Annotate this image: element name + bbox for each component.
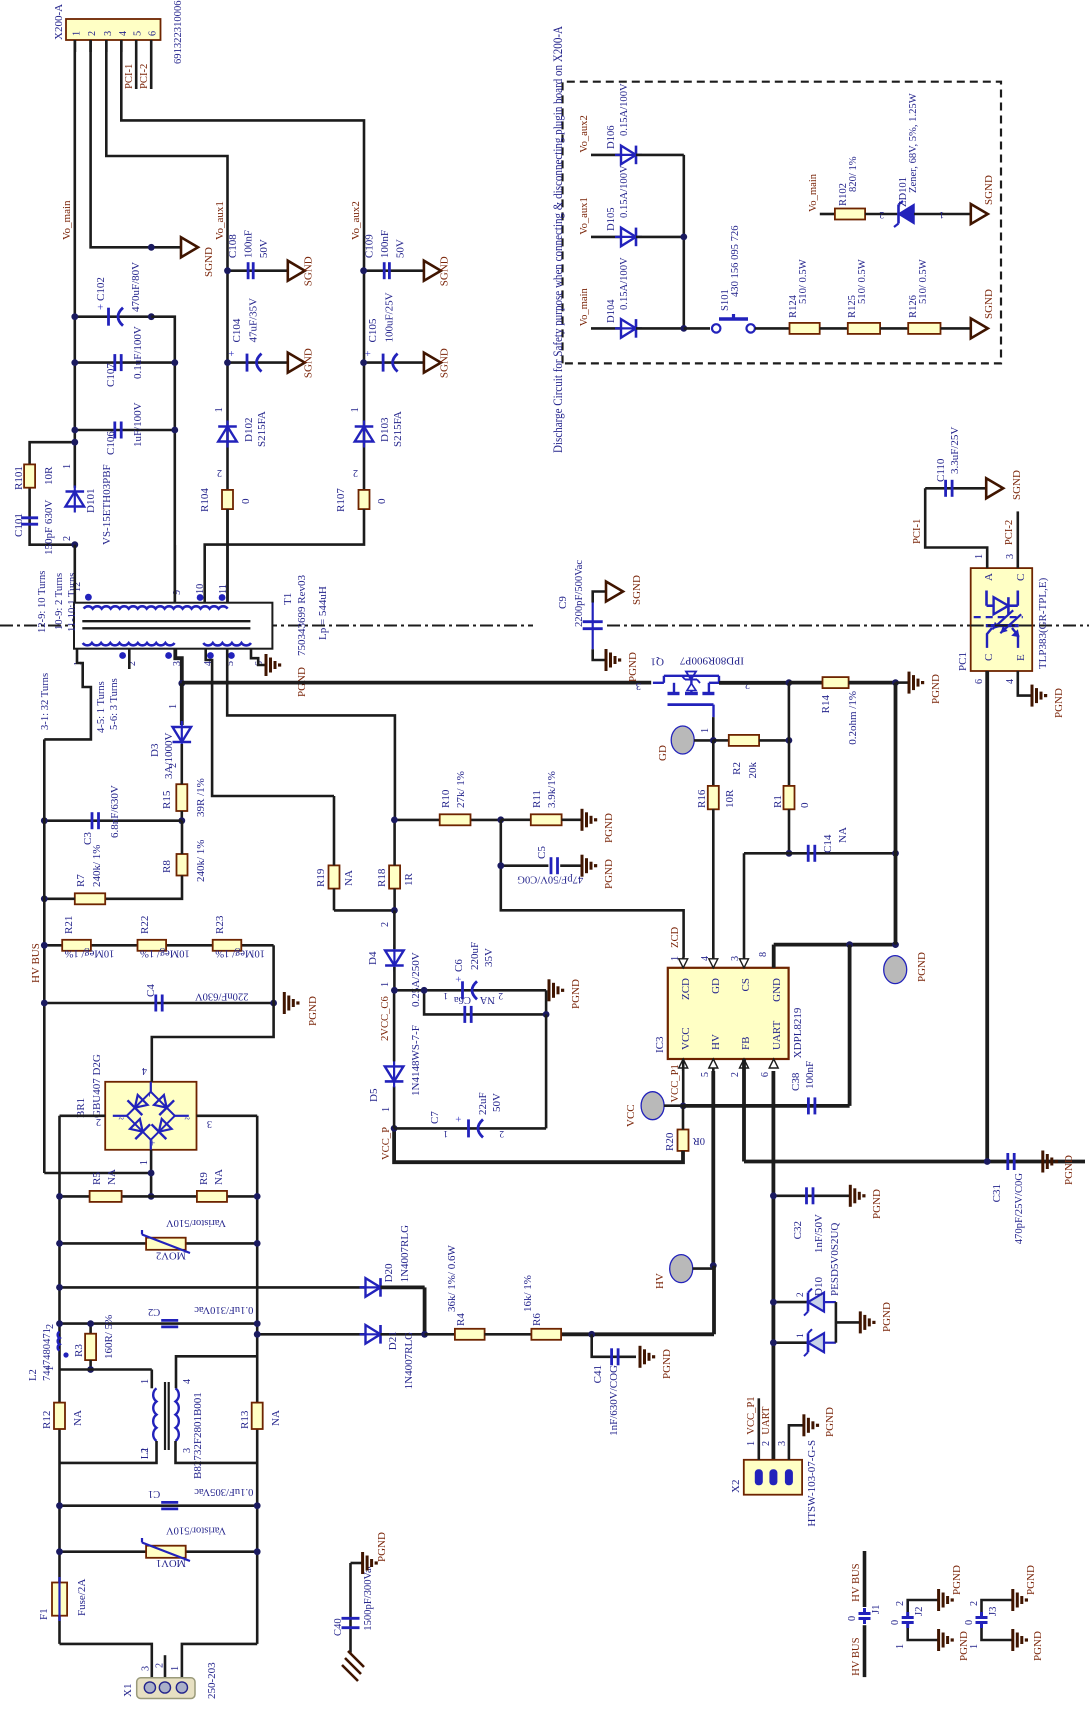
resistor R22 10Meg/1% bbox=[138, 940, 167, 951]
svg-text:SGND: SGND bbox=[203, 247, 215, 277]
svg-text:5: 5 bbox=[133, 31, 144, 36]
wire HV riser bbox=[712, 1266, 716, 1335]
svg-text:D102: D102 bbox=[243, 418, 255, 442]
svg-text:PGND: PGND bbox=[951, 1565, 963, 1595]
svg-text:IC3: IC3 bbox=[654, 1036, 666, 1053]
svg-text:GD: GD bbox=[710, 978, 722, 994]
svg-text:NA: NA bbox=[270, 1410, 282, 1426]
svg-text:D5: D5 bbox=[368, 1088, 380, 1102]
zener ZD101 68V bbox=[899, 205, 915, 224]
svg-text:MOV1: MOV1 bbox=[156, 1557, 186, 1568]
port VCC bbox=[641, 1092, 664, 1120]
transformer T1 polarity dots bbox=[85, 594, 92, 601]
resistor R4 36k/1%/0.6W bbox=[425, 1333, 455, 1336]
capacitor C7 22uF 50V bbox=[394, 1127, 546, 1130]
capacitor C32 1nF/50V bbox=[773, 1195, 850, 1198]
wire R23 chain to C4 node bbox=[272, 945, 275, 1003]
svg-text:2: 2 bbox=[155, 1663, 166, 1668]
svg-text:510/ 0.5W: 510/ 0.5W bbox=[798, 259, 809, 304]
svg-text:C105: C105 bbox=[367, 318, 379, 342]
node Vo_aux1 rail wire bbox=[106, 40, 227, 603]
svg-text:~: ~ bbox=[118, 1112, 124, 1123]
svg-text:C4: C4 bbox=[145, 984, 157, 997]
ground PGND C32 bbox=[849, 1185, 852, 1207]
svg-text:C14: C14 bbox=[822, 834, 834, 853]
resistor R104 0 bbox=[222, 490, 233, 509]
capacitor C3 plates bbox=[91, 812, 94, 829]
svg-text:J3: J3 bbox=[988, 1607, 999, 1616]
svg-text:2: 2 bbox=[217, 467, 222, 478]
ground SGND C109 bbox=[424, 261, 441, 281]
svg-text:NA: NA bbox=[213, 1169, 225, 1185]
svg-text:3: 3 bbox=[777, 1441, 788, 1446]
ground PGND D10 bbox=[859, 1311, 862, 1333]
svg-text:10Meg/ 1%: 10Meg/ 1% bbox=[215, 948, 265, 959]
svg-text:D3: D3 bbox=[149, 743, 161, 757]
wire C6 C6a bottom join bbox=[545, 990, 548, 1014]
svg-text:1: 1 bbox=[381, 1107, 392, 1112]
svg-text:D105: D105 bbox=[606, 207, 617, 231]
svg-text:GD: GD bbox=[657, 745, 669, 761]
capacitor C101 150pF 630V bbox=[21, 523, 38, 526]
svg-text:R5: R5 bbox=[91, 1172, 103, 1185]
svg-text:UART: UART bbox=[761, 1406, 772, 1435]
resistor R9 NA bbox=[197, 1191, 227, 1202]
svg-text:VCC_P1: VCC_P1 bbox=[746, 1396, 757, 1434]
wire VCC_P run bbox=[394, 1128, 683, 1162]
wire R2 to R1 node bbox=[786, 737, 793, 744]
wire T1 pin2 stub bbox=[128, 649, 131, 669]
wire L1 pin4 to AC line2 bbox=[176, 1356, 257, 1388]
capacitor C6 220uF 35V wire bbox=[394, 989, 546, 992]
svg-text:PGND: PGND bbox=[603, 859, 615, 889]
svg-text:UART: UART bbox=[771, 1020, 783, 1050]
svg-text:D10: D10 bbox=[813, 1277, 825, 1296]
svg-text:PCI-1: PCI-1 bbox=[912, 519, 923, 544]
optocoupler PC1 phototransistor bbox=[986, 624, 1019, 627]
svg-text:Vo_main: Vo_main bbox=[808, 173, 819, 212]
svg-text:L2: L2 bbox=[28, 1369, 39, 1381]
svg-text:J1: J1 bbox=[871, 1605, 882, 1614]
ground PGND C5 bbox=[581, 855, 584, 877]
wire R8 to R7 bbox=[105, 876, 182, 899]
wire IC3 HV pin run bbox=[711, 1071, 715, 1266]
wire discharge collection rail bbox=[682, 155, 685, 329]
svg-text:C102: C102 bbox=[95, 277, 107, 301]
svg-text:1: 1 bbox=[214, 407, 225, 412]
svg-text:11-10:1 Turns: 11-10:1 Turns bbox=[67, 573, 78, 632]
capacitor C106 wire bbox=[75, 429, 175, 432]
capacitor C102 470uF/80V bbox=[107, 308, 110, 326]
ground SGND C108 bbox=[288, 261, 305, 281]
svg-text:2: 2 bbox=[796, 1292, 806, 1297]
node R14 PGND junction bbox=[892, 679, 899, 686]
wire AC line2 to X1 pin1 bbox=[182, 1644, 257, 1678]
svg-text:1: 1 bbox=[443, 990, 448, 1000]
connector X2 HTSW-103-07-G-S bbox=[744, 1460, 802, 1495]
svg-text:PGND: PGND bbox=[916, 952, 928, 982]
svg-text:20k: 20k bbox=[747, 762, 759, 779]
wire VCC pin to port bbox=[682, 1059, 685, 1106]
svg-text:+: + bbox=[454, 976, 465, 982]
optocoupler PC1 light arrows bbox=[1000, 614, 1021, 633]
capacitor C31 470pF/25V/C0G bbox=[1006, 1153, 1009, 1170]
wire D20 D21 join bbox=[381, 1286, 425, 1290]
wire HV port stub bbox=[693, 1267, 714, 1270]
svg-text:3: 3 bbox=[103, 31, 114, 36]
capacitor C6 plates bbox=[461, 981, 464, 999]
svg-text:SGND: SGND bbox=[1011, 470, 1023, 500]
capacitor C106 1uF/100V bbox=[113, 422, 116, 439]
svg-text:10: 10 bbox=[195, 584, 206, 594]
wire CS jog bbox=[743, 853, 746, 957]
svg-text:R104: R104 bbox=[199, 488, 211, 512]
ground PGND R11 bbox=[581, 809, 584, 831]
ground SGND output bbox=[181, 237, 198, 257]
wire R10 divider chain bbox=[394, 819, 500, 822]
ground SGND C9 bbox=[606, 582, 623, 602]
svg-text:PGND: PGND bbox=[930, 674, 942, 704]
resistor R5 NA bbox=[90, 1191, 122, 1202]
svg-text:D103: D103 bbox=[379, 417, 391, 442]
connector X1 250-203 bbox=[137, 1678, 195, 1699]
ground PGND X2 bbox=[802, 1414, 805, 1436]
svg-text:Vo_aux1: Vo_aux1 bbox=[579, 197, 590, 234]
svg-text:C1: C1 bbox=[148, 1488, 160, 1499]
capacitor C107 0.1uF/100V bbox=[113, 354, 116, 371]
ground SGND zener bbox=[971, 204, 988, 224]
svg-text:C110: C110 bbox=[935, 458, 947, 482]
node AC line2 wire bbox=[256, 1196, 259, 1644]
svg-text:0: 0 bbox=[890, 1620, 901, 1625]
svg-text:PGND: PGND bbox=[570, 979, 582, 1009]
node HV BUS rail bbox=[43, 739, 46, 1173]
ground PGND PC1 pin4 bbox=[1031, 685, 1034, 707]
svg-text:1: 1 bbox=[974, 554, 985, 559]
svg-text:CS: CS bbox=[740, 978, 752, 991]
wire R19 to R18 node bbox=[334, 909, 394, 912]
resistor R101 branch wire bbox=[30, 442, 75, 464]
svg-text:VCC_P: VCC_P bbox=[381, 1127, 392, 1160]
svg-text:C41: C41 bbox=[592, 1365, 604, 1383]
wire X1 pin2 stub bbox=[164, 1655, 167, 1678]
resistor R1 0 bbox=[788, 740, 791, 809]
svg-text:0: 0 bbox=[799, 802, 811, 808]
wire SGND rail to T1 pin9 bbox=[151, 317, 175, 603]
resistor R3 160R/5% bbox=[89, 1324, 92, 1334]
IC3 pin stubs right bbox=[682, 958, 685, 968]
svg-text:ZCD: ZCD bbox=[680, 978, 692, 1000]
switch S101 430 156 095 726 bbox=[684, 327, 710, 330]
wire R1 to CS node bbox=[788, 809, 791, 853]
resistor R10 27k/1% bbox=[440, 814, 471, 825]
svg-text:5-6: 3 Turns: 5-6: 3 Turns bbox=[109, 678, 120, 730]
svg-text:0.1uF/305Vac: 0.1uF/305Vac bbox=[194, 1486, 253, 1497]
capacitor C108 branch wire bbox=[228, 269, 288, 272]
svg-text:R3: R3 bbox=[73, 1344, 85, 1357]
wire HV BUS to BR1 bbox=[44, 1172, 151, 1175]
svg-text:TLP383(GR-TPL,E): TLP383(GR-TPL,E) bbox=[1037, 577, 1049, 669]
wire R21 R22 R23 chain bbox=[44, 944, 273, 947]
svg-text:2: 2 bbox=[969, 1601, 980, 1606]
capacitor C6a NA branch bbox=[424, 990, 546, 1014]
resistor R18 1R bbox=[389, 865, 400, 888]
diode D103 S215FA bbox=[355, 427, 374, 442]
svg-text:E: E bbox=[1015, 654, 1027, 661]
svg-text:0: 0 bbox=[376, 498, 388, 504]
capacitor C107 wire bbox=[75, 361, 175, 364]
svg-text:R10: R10 bbox=[440, 789, 452, 808]
transistor Q1 IPD80R900P7 bbox=[653, 682, 664, 684]
wire C9 to SGND bbox=[593, 592, 606, 603]
jumper J3 bbox=[980, 1623, 983, 1629]
svg-text:PC1: PC1 bbox=[957, 652, 969, 671]
wire X2 pin3 to PGND bbox=[789, 1425, 804, 1460]
svg-text:C3: C3 bbox=[82, 832, 94, 845]
svg-text:SGND: SGND bbox=[303, 348, 315, 378]
ground PGND J3 pin1 bbox=[1011, 1629, 1014, 1651]
wire R107 to T1 pin10 bbox=[205, 509, 364, 603]
svg-text:50V: 50V bbox=[394, 239, 406, 258]
svg-text:430 156 095 726: 430 156 095 726 bbox=[730, 225, 741, 297]
wire Q1 source to R14 bbox=[719, 681, 789, 685]
svg-text:SGND: SGND bbox=[983, 289, 995, 319]
wire VCC port stub bbox=[664, 1104, 683, 1107]
svg-text:NA: NA bbox=[479, 994, 495, 1005]
node R18 junction bbox=[391, 907, 398, 914]
ground PGND T1 pin6 bbox=[251, 649, 266, 665]
svg-text:R22: R22 bbox=[139, 916, 151, 934]
svg-text:5: 5 bbox=[700, 1072, 711, 1077]
capacitor C14 plates bbox=[807, 845, 810, 862]
wire PGND rail to R14 node bbox=[894, 853, 898, 944]
svg-text:150pF 630V: 150pF 630V bbox=[43, 500, 55, 555]
svg-text:220nF/630V: 220nF/630V bbox=[195, 991, 249, 1002]
svg-text:2: 2 bbox=[879, 209, 884, 219]
svg-text:3: 3 bbox=[141, 1666, 152, 1671]
optocoupler PC1 TLP383 box bbox=[971, 568, 1032, 671]
resistor R126 510/0.5W bbox=[880, 327, 908, 330]
svg-text:+: + bbox=[147, 1140, 159, 1146]
svg-text:HV: HV bbox=[654, 1273, 666, 1289]
svg-text:ZCD: ZCD bbox=[670, 926, 681, 948]
svg-text:6: 6 bbox=[148, 31, 159, 36]
fuse F1 Fuse/2A bbox=[52, 1583, 67, 1616]
svg-text:2: 2 bbox=[87, 31, 98, 36]
wire T1 pin1 to HV BUS bbox=[44, 649, 91, 740]
svg-text:4: 4 bbox=[142, 1065, 147, 1076]
capacitor C4 plates bbox=[154, 995, 157, 1012]
svg-text:4: 4 bbox=[118, 31, 129, 36]
svg-text:VCC: VCC bbox=[680, 1027, 692, 1050]
svg-text:12-9: 10 Turns: 12-9: 10 Turns bbox=[37, 571, 48, 633]
svg-text:J2: J2 bbox=[914, 1607, 925, 1616]
svg-text:3.9k/1%: 3.9k/1% bbox=[546, 771, 558, 808]
capacitor C104 branch wire bbox=[228, 361, 288, 364]
wire R126 to SGND bbox=[941, 327, 971, 330]
transformer T1 core lines bbox=[82, 627, 250, 629]
svg-text:100nF: 100nF bbox=[379, 230, 391, 258]
optocoupler PC1 internals bbox=[985, 591, 988, 606]
capacitor C105 branch wire bbox=[364, 361, 424, 364]
transformer T1 box bbox=[74, 603, 272, 649]
svg-text:2: 2 bbox=[62, 536, 73, 541]
svg-text:4: 4 bbox=[1005, 679, 1016, 684]
wire L2 node to L1 pin1 bbox=[60, 1368, 152, 1371]
svg-text:Vo_main: Vo_main bbox=[61, 200, 73, 240]
svg-text:691322310006: 691322310006 bbox=[173, 0, 184, 64]
wire C38 to PGND rail bbox=[848, 945, 852, 1106]
bridge BR1 internal diodes bbox=[127, 1092, 175, 1140]
svg-text:100nF: 100nF bbox=[804, 1061, 816, 1089]
svg-text:PCI-2: PCI-2 bbox=[1004, 520, 1015, 545]
svg-text:IPD80R900P7: IPD80R900P7 bbox=[679, 654, 744, 666]
svg-text:GBU407 D2G: GBU407 D2G bbox=[91, 1054, 103, 1118]
wire R104 to T1 pin11 bbox=[226, 509, 229, 603]
svg-text:470pF/25V/C0G: 470pF/25V/C0G bbox=[1014, 1173, 1025, 1245]
ground PGND C31 bbox=[1020, 1160, 1043, 1163]
svg-text:0.1uF/100V: 0.1uF/100V bbox=[132, 326, 144, 379]
svg-text:Vo_main: Vo_main bbox=[579, 287, 590, 326]
svg-text:PCI-1: PCI-1 bbox=[124, 64, 135, 89]
svg-text:1: 1 bbox=[139, 1160, 150, 1165]
IC IC3 XDPL8219 box bbox=[668, 968, 789, 1059]
svg-text:PESD5V0S2UQ: PESD5V0S2UQ bbox=[829, 1223, 841, 1296]
capacitor C104 47uF/35V bbox=[246, 354, 249, 372]
svg-text:1N4007RLG: 1N4007RLG bbox=[399, 1225, 411, 1283]
node VCC_P bbox=[391, 1125, 398, 1132]
svg-text:0R: 0R bbox=[692, 1135, 705, 1146]
svg-text:NA: NA bbox=[72, 1410, 84, 1426]
svg-text:C6: C6 bbox=[453, 959, 465, 972]
svg-text:NA: NA bbox=[106, 1169, 118, 1185]
wire R5 R9 row bbox=[60, 1195, 258, 1198]
svg-text:36k/ 1%/ 0.6W: 36k/ 1%/ 0.6W bbox=[446, 1244, 458, 1312]
svg-text:C5: C5 bbox=[536, 846, 548, 859]
node C14 PGND wire bbox=[892, 850, 899, 857]
diode D5 1N4148WS-7-F bbox=[393, 1086, 396, 1128]
resistor R15 39R/1% bbox=[176, 784, 187, 811]
svg-text:C2: C2 bbox=[148, 1306, 160, 1317]
svg-text:240k/ 1%: 240k/ 1% bbox=[195, 840, 207, 882]
svg-text:X200-A: X200-A bbox=[53, 4, 65, 40]
svg-text:R8: R8 bbox=[161, 860, 173, 873]
svg-text:PGND: PGND bbox=[376, 1532, 388, 1562]
svg-text:Varistor/510V: Varistor/510V bbox=[166, 1217, 226, 1228]
svg-text:2: 2 bbox=[761, 1441, 772, 1446]
capacitor C110 3.3uF/25V bbox=[925, 487, 986, 490]
connector X200-A bbox=[66, 19, 161, 40]
svg-text:10R: 10R bbox=[724, 789, 736, 808]
svg-text:SGND: SGND bbox=[439, 256, 451, 286]
svg-text:0.1uF/310Vac: 0.1uF/310Vac bbox=[194, 1304, 253, 1315]
ground PGND C41 bbox=[639, 1346, 642, 1368]
svg-text:100uF/25V: 100uF/25V bbox=[384, 292, 396, 342]
svg-text:0: 0 bbox=[847, 1616, 858, 1621]
svg-text:SGND: SGND bbox=[439, 348, 451, 378]
capacitor C14 NA wire bbox=[744, 852, 896, 855]
svg-text:GND: GND bbox=[771, 978, 783, 1002]
svg-text:R21: R21 bbox=[63, 916, 75, 934]
svg-text:6: 6 bbox=[760, 1072, 771, 1077]
svg-text:47pF/50V/C0G: 47pF/50V/C0G bbox=[517, 874, 583, 885]
svg-text:C101: C101 bbox=[13, 513, 25, 537]
svg-text:1: 1 bbox=[380, 982, 391, 987]
svg-text:Lp = 544uH: Lp = 544uH bbox=[317, 586, 329, 640]
svg-text:50V: 50V bbox=[491, 1093, 503, 1112]
svg-text:R13: R13 bbox=[239, 1410, 251, 1429]
ground PGND C40 bbox=[351, 1562, 363, 1565]
capacitor C41 1nF/630V/COG bbox=[592, 1334, 636, 1357]
svg-text:R12: R12 bbox=[41, 1411, 53, 1429]
svg-text:1500pF/300Vac: 1500pF/300Vac bbox=[363, 1563, 374, 1630]
svg-text:11: 11 bbox=[218, 584, 229, 594]
svg-text:1N4148WS-7-F: 1N4148WS-7-F bbox=[410, 1025, 422, 1096]
capacitor C109 branch wire bbox=[364, 269, 424, 272]
svg-text:1: 1 bbox=[62, 464, 73, 469]
resistor R6 16k/1% bbox=[531, 1329, 561, 1340]
svg-text:50V: 50V bbox=[258, 239, 270, 258]
svg-text:510/ 0.5W: 510/ 0.5W bbox=[918, 259, 929, 304]
wire IC3 GND pin8 to PGND rail bbox=[772, 945, 776, 968]
svg-text:1: 1 bbox=[939, 209, 944, 219]
svg-text:R9: R9 bbox=[198, 1172, 210, 1185]
svg-text:6.8nF/630V: 6.8nF/630V bbox=[109, 785, 121, 838]
svg-text:470uF/80V: 470uF/80V bbox=[130, 262, 142, 312]
svg-text:R101: R101 bbox=[13, 466, 25, 490]
ground SGND C104 bbox=[288, 353, 305, 373]
svg-text:35V: 35V bbox=[483, 948, 495, 967]
discharge circuit dashed box bbox=[563, 82, 1002, 364]
diode D4 0.25A/250V bbox=[385, 951, 404, 966]
resistor R124 510/0.5W bbox=[790, 323, 820, 334]
wire L1 pin2 to lower AC1 bbox=[60, 1441, 157, 1463]
svg-text:+: + bbox=[454, 1116, 465, 1122]
svg-text:1nF/630V/COG: 1nF/630V/COG bbox=[608, 1365, 620, 1436]
svg-text:NA: NA bbox=[837, 827, 849, 843]
svg-text:R107: R107 bbox=[335, 488, 347, 512]
svg-text:D101: D101 bbox=[85, 489, 97, 513]
port GD bbox=[671, 726, 694, 754]
capacitor C105 100uF/25V bbox=[382, 354, 385, 372]
svg-text:10-9: 2 Turns: 10-9: 2 Turns bbox=[54, 573, 65, 630]
svg-text:0.15A/100V: 0.15A/100V bbox=[619, 257, 630, 310]
svg-text:~: ~ bbox=[184, 1112, 190, 1123]
svg-text:F1: F1 bbox=[38, 1608, 50, 1620]
svg-text:C31: C31 bbox=[991, 1184, 1003, 1202]
svg-text:C7: C7 bbox=[429, 1111, 441, 1124]
svg-text:3-1: 32 Turns: 3-1: 32 Turns bbox=[40, 673, 51, 730]
port HV bbox=[670, 1255, 693, 1283]
svg-text:A: A bbox=[983, 573, 995, 581]
svg-text:HV BUS: HV BUS bbox=[30, 943, 42, 983]
svg-text:C38: C38 bbox=[790, 1072, 802, 1091]
svg-text:7447480471: 7447480471 bbox=[42, 1328, 53, 1381]
svg-text:2: 2 bbox=[498, 990, 503, 1000]
svg-text:1: 1 bbox=[170, 1666, 181, 1671]
resistor R19 NA bbox=[329, 865, 340, 888]
svg-text:HTSW-103-07-G-S: HTSW-103-07-G-S bbox=[806, 1440, 818, 1527]
node Vo_aux2 rail wire bbox=[121, 40, 364, 489]
svg-text:1: 1 bbox=[140, 1379, 151, 1384]
svg-text:PGND: PGND bbox=[603, 813, 615, 843]
wire PC1 pin4 emitter bbox=[1018, 671, 1032, 696]
svg-text:2: 2 bbox=[45, 1324, 56, 1329]
resistor R12 NA bbox=[54, 1403, 65, 1429]
capacitor C40 plates bbox=[342, 1626, 360, 1629]
ground PGND J2 pin2 bbox=[937, 1589, 940, 1611]
capacitor C1 0.1uF/305Vac bbox=[60, 1504, 258, 1507]
